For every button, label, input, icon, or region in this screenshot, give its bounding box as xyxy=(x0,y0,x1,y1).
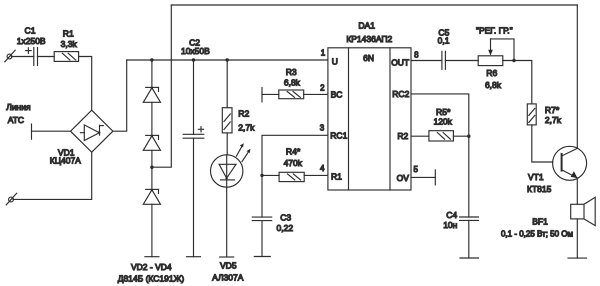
svg-text:R5*: R5* xyxy=(436,107,451,117)
svg-text:АТС: АТС xyxy=(8,115,24,125)
terminal X2 line input xyxy=(6,193,16,205)
svg-text:6,8k: 6,8k xyxy=(485,80,502,90)
svg-text:3,3k: 3,3k xyxy=(61,39,78,49)
wire VD2 to VD3 xyxy=(151,102,153,135)
svg-text:VD2 - VD4: VD2 - VD4 xyxy=(131,262,172,272)
top rail xyxy=(171,4,577,6)
wire C5 to R6 xyxy=(445,60,478,62)
svg-text:КР1436АП2: КР1436АП2 xyxy=(346,34,392,44)
svg-text:2,7k: 2,7k xyxy=(545,115,562,125)
junction R4 node xyxy=(260,174,263,177)
terminal bar ATC xyxy=(31,124,33,139)
svg-text:VD5: VD5 xyxy=(220,261,237,271)
junction R5 C4 node xyxy=(467,135,470,138)
svg-text:DA1: DA1 xyxy=(358,21,375,31)
svg-text:RC1: RC1 xyxy=(330,130,347,140)
junction R6 wiper xyxy=(512,59,515,62)
svg-text:5: 5 xyxy=(414,165,419,174)
plus sign of C1 xyxy=(26,48,32,54)
svg-text:6N: 6N xyxy=(363,53,374,63)
wire bridge right up to plus rail xyxy=(113,60,127,131)
svg-text:3: 3 xyxy=(320,124,325,133)
wire VD3 to VD4 xyxy=(151,150,153,189)
wire node to C4 xyxy=(468,136,470,217)
capacitor C1 1x250B xyxy=(34,48,38,66)
ground bar BF1 xyxy=(568,257,587,259)
svg-text:120k: 120k xyxy=(433,117,452,127)
svg-text:КТ815: КТ815 xyxy=(527,184,552,194)
op-amp U1 IC DA1 body xyxy=(328,48,411,190)
transistor VT1 xyxy=(553,146,587,180)
svg-text:R2: R2 xyxy=(397,131,408,141)
wire R5 to node xyxy=(453,135,468,137)
junction on rail at VD2 xyxy=(150,58,153,61)
wire zener tap to top rail riser xyxy=(152,5,171,167)
svg-text:C4: C4 xyxy=(446,210,457,220)
svg-text:1x250В: 1x250В xyxy=(17,36,46,46)
wire R2 to VD5 xyxy=(226,133,228,155)
wire RC2 down xyxy=(411,94,469,136)
svg-text:R6: R6 xyxy=(486,68,497,78)
wire pin5 OV xyxy=(411,176,435,178)
svg-text:2: 2 xyxy=(320,84,325,93)
svg-text:RC2: RC2 xyxy=(392,89,409,99)
svg-text:VT1: VT1 xyxy=(528,172,544,182)
svg-text:АЛ307А: АЛ307А xyxy=(212,273,244,283)
resistor R7 vertical xyxy=(527,104,536,125)
wire emitter to speaker xyxy=(576,178,578,204)
svg-text:R3: R3 xyxy=(286,67,297,77)
wire C1 to R1 xyxy=(38,56,55,58)
zener diode VD4 xyxy=(143,189,160,205)
svg-text:0,22: 0,22 xyxy=(277,223,294,233)
wire bar to R3 xyxy=(262,93,279,95)
svg-text:470k: 470k xyxy=(284,158,303,168)
svg-text:Линия: Линия xyxy=(6,102,31,112)
R6 wiper arrow xyxy=(488,39,493,56)
svg-text:C1: C1 xyxy=(25,26,36,36)
wire pin R2 to R5 xyxy=(411,135,429,137)
junction on rail at C2 xyxy=(192,58,195,61)
wire R6 to R7 xyxy=(503,61,532,104)
wire C2 to ground xyxy=(193,138,195,257)
svg-text:1: 1 xyxy=(321,49,326,58)
capacitor C4 10n xyxy=(460,217,479,220)
svg-text:0,1: 0,1 xyxy=(438,36,450,46)
ground bar C3 xyxy=(254,256,270,258)
wire wiper to R6 right xyxy=(491,39,515,61)
svg-text:8: 8 xyxy=(414,51,419,60)
capacitor C2 10x50B xyxy=(183,134,204,138)
plus sign of C2 xyxy=(198,127,203,132)
svg-text:КЦ407А: КЦ407А xyxy=(50,155,81,165)
resistor R3 xyxy=(279,90,304,99)
plus rail xyxy=(127,59,328,61)
wire X1 to C1 xyxy=(12,56,34,58)
wire R4 to pin4 xyxy=(304,174,328,176)
resistor R5 xyxy=(429,131,454,141)
wire ATC to bridge left xyxy=(32,130,71,132)
LED arrow 2 xyxy=(242,149,250,162)
terminal X1 line input xyxy=(5,50,15,62)
wire rail to R2 xyxy=(226,60,228,108)
zener diode VD3 xyxy=(143,135,160,151)
ground bar C4 xyxy=(460,257,479,259)
svg-text:"РЕГ. ГР.": "РЕГ. ГР." xyxy=(476,26,513,36)
resistor R1 xyxy=(54,52,78,62)
wire pin8 to C5 xyxy=(411,60,442,62)
wire C4 to ground xyxy=(468,220,470,258)
svg-text:R1: R1 xyxy=(63,28,74,38)
svg-text:BF1: BF1 xyxy=(532,216,548,226)
svg-text:4: 4 xyxy=(320,164,325,173)
diode bridge VD1 xyxy=(71,110,113,152)
svg-text:R1: R1 xyxy=(331,172,342,182)
junction VD3-VD4 node xyxy=(150,166,153,169)
wire R7 to VT1 base xyxy=(532,125,553,162)
terminal bar R3 left xyxy=(261,88,263,102)
svg-text:OUT: OUT xyxy=(391,58,409,68)
svg-text:R4*: R4* xyxy=(286,147,301,157)
wire top rail down to VT1 collector xyxy=(576,5,578,148)
wire speaker to ground xyxy=(576,219,578,258)
capacitor C3 0,22 xyxy=(252,217,271,221)
svg-text:U: U xyxy=(332,57,338,67)
potentiometer R6 xyxy=(478,56,503,66)
wire bridge bottom to X2 xyxy=(13,152,92,199)
resistor R2 vertical xyxy=(222,108,232,133)
zener diode VD2 xyxy=(143,87,160,103)
svg-text:10н: 10н xyxy=(443,220,457,230)
svg-text:R7*: R7* xyxy=(545,105,560,115)
svg-text:OV: OV xyxy=(397,173,410,183)
wire VD5 to ground xyxy=(226,187,228,257)
terminal bar OV xyxy=(434,170,436,185)
ground bar VD5 xyxy=(220,256,234,258)
svg-text:0,1 - 0,25 Вт; 50 Ом: 0,1 - 0,25 Вт; 50 Ом xyxy=(501,230,573,239)
speaker BF1 xyxy=(571,197,596,225)
ground bar C2 xyxy=(187,256,201,258)
wire VD4 to ground xyxy=(151,204,153,256)
svg-text:C3: C3 xyxy=(280,213,291,223)
wire pin3 RC1 down xyxy=(262,135,328,175)
wire node to C3 xyxy=(261,175,263,217)
junction on rail at R2 xyxy=(226,58,229,61)
wire C3 to ground xyxy=(261,221,263,257)
wire rail to VD2 xyxy=(151,60,153,87)
svg-text:10x50В: 10x50В xyxy=(181,46,210,56)
svg-text:6,8k: 6,8k xyxy=(284,77,301,87)
LED arrow 1 xyxy=(236,143,243,156)
svg-text:BC: BC xyxy=(331,90,343,100)
capacitor C5 0,1 xyxy=(442,51,446,69)
wire R1 to bridge top xyxy=(79,57,92,111)
wire R3 to pin2 xyxy=(304,93,328,95)
resistor R4 xyxy=(279,172,304,181)
svg-text:Д814Б (КС191Ж): Д814Б (КС191Ж) xyxy=(118,274,185,284)
wire rail to C2 xyxy=(193,60,195,134)
ground bar VD4 xyxy=(145,256,159,258)
LED VD5 xyxy=(211,155,243,187)
wire node to R4 xyxy=(262,174,279,176)
svg-text:R2: R2 xyxy=(238,109,249,119)
svg-text:2,7k: 2,7k xyxy=(238,123,255,133)
